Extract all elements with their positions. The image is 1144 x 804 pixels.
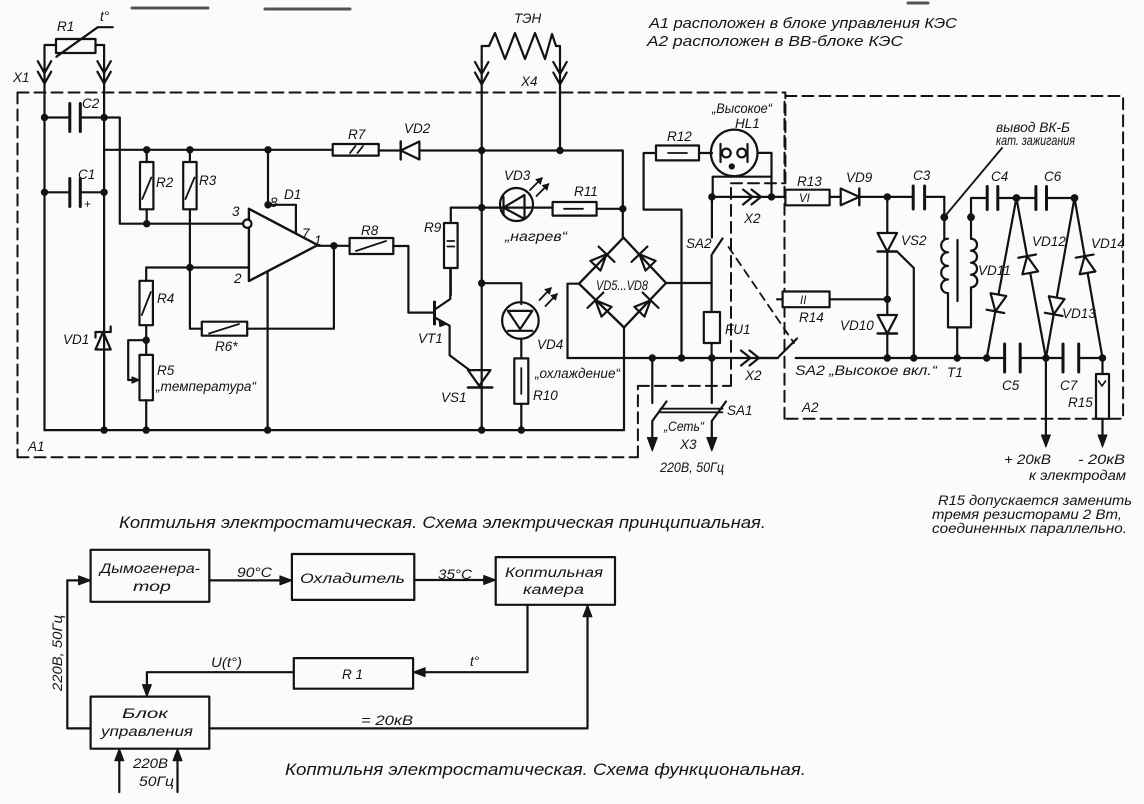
wire op-amp output — [318, 245, 350, 247]
svg-text:R 1: R 1 — [342, 667, 363, 682]
resistor R9 — [424, 208, 458, 295]
block smoking chamber — [496, 557, 615, 605]
wire X2 upper row — [712, 196, 786, 198]
svg-text:R14: R14 — [799, 310, 824, 325]
svg-text:С7: С7 — [1060, 378, 1078, 393]
svg-text:R2: R2 — [156, 175, 174, 190]
wire bridge left corner down — [568, 284, 580, 358]
resistor R14 — [777, 292, 887, 326]
svg-text:50Гц: 50Гц — [139, 774, 174, 789]
svg-text:С3: С3 — [913, 168, 931, 183]
HV output bus — [796, 357, 1103, 359]
fuse FU1 — [704, 282, 751, 358]
svg-text:управления: управления — [100, 724, 193, 739]
node C1 junctions — [42, 190, 47, 195]
zener diode VD1 — [63, 327, 111, 350]
block cooler — [292, 554, 414, 600]
capacitor C5 — [1002, 344, 1020, 393]
wire feedback — [247, 246, 334, 329]
connector X2 upper — [743, 190, 761, 205]
svg-text:R15: R15 — [1068, 395, 1093, 410]
connector X3 pins — [647, 438, 717, 452]
connector X4 pins — [475, 62, 567, 85]
block control unit — [91, 697, 210, 749]
switch SA2 pole 1 — [686, 197, 723, 254]
svg-text:VS2: VS2 — [901, 233, 927, 248]
diode VD12 — [1018, 255, 1039, 275]
resistor R12 — [656, 129, 699, 160]
svg-text:к электродам: к электродам — [1029, 468, 1126, 483]
wire R8 to VT1 base — [393, 246, 434, 313]
capacitor C4 — [987, 169, 1016, 210]
block R1 regulator — [294, 658, 413, 689]
resistor R15 — [1068, 358, 1109, 419]
resistor R6 — [190, 268, 247, 355]
svg-text:Коптильня электростатическая.: Коптильня электростатическая. Схема функ… — [285, 761, 806, 779]
svg-text:R4: R4 — [157, 291, 174, 306]
output +20kV — [1004, 358, 1051, 467]
svg-text:VD11: VD11 — [978, 263, 1011, 278]
op-amp D1 — [232, 187, 322, 286]
svg-text:SA2: SA2 — [686, 236, 712, 251]
svg-text:А1: А1 — [27, 439, 45, 454]
svg-text:- 20кВ: - 20кВ — [1078, 452, 1125, 467]
diode VD11 — [987, 293, 1008, 313]
svg-text:R12: R12 — [667, 129, 692, 144]
switch SA2 pole 2 — [761, 339, 939, 379]
svg-text:FU1: FU1 — [725, 322, 751, 337]
wire 20kV to chamber — [209, 605, 592, 729]
thyristor VS2 — [878, 197, 927, 358]
svg-text:VI: VI — [799, 193, 811, 205]
svg-text:VT1: VT1 — [418, 331, 443, 346]
dashed mechanical link SA2 — [729, 247, 795, 343]
diode VD10 — [840, 315, 897, 334]
svg-text:HL1: HL1 — [735, 116, 760, 131]
capacitor C2 — [45, 96, 105, 132]
wire U(t) to control unit — [142, 655, 293, 697]
wire pin 8 and bracket pin 7 — [268, 150, 296, 234]
wire bridge bottom corner down — [623, 328, 625, 431]
svg-text:R3: R3 — [199, 173, 217, 188]
svg-text:VD2: VD2 — [404, 121, 431, 136]
svg-text:тремя резисторами 2 Вт,: тремя резисторами 2 Вт, — [932, 507, 1122, 522]
capacitor C3 — [913, 168, 944, 209]
wire bridge right corner to SA2 — [666, 255, 712, 283]
arrows mains into control unit — [115, 749, 182, 792]
wire R12 to lamp — [699, 152, 712, 154]
scan artifact marks — [132, 3, 928, 9]
svg-text:С5: С5 — [1002, 378, 1020, 393]
wire R1 to X1 pins — [45, 45, 105, 61]
multiplier diagonal wires — [987, 198, 1103, 358]
svg-text:VD1: VD1 — [63, 332, 89, 347]
arrow 35C — [414, 567, 495, 585]
resistor R4 — [140, 281, 175, 355]
wire VD2 to bridge — [419, 151, 622, 238]
svg-text:R7: R7 — [348, 127, 366, 142]
svg-text:VD14: VD14 — [1091, 236, 1125, 251]
wire X1 left rail down — [43, 83, 45, 430]
note A1 A2 location — [646, 16, 958, 50]
svg-text:С6: С6 — [1044, 169, 1062, 184]
svg-text:II: II — [800, 295, 807, 307]
svg-text:35°С: 35°С — [438, 567, 472, 582]
svg-text:R1: R1 — [57, 19, 74, 34]
svg-text:VD5...VD8: VD5...VD8 — [596, 278, 648, 293]
svg-text:R8: R8 — [361, 223, 379, 238]
diode VD14 — [1076, 255, 1097, 275]
thermistor R1 — [56, 9, 113, 57]
svg-text:С4: С4 — [991, 169, 1008, 184]
svg-text:R13: R13 — [797, 174, 822, 189]
wire mains loop left — [50, 576, 91, 729]
svg-text:Х4: Х4 — [520, 74, 538, 89]
pointer line vyvod VK-B — [946, 148, 1003, 216]
svg-text:Коптильная: Коптильная — [505, 565, 603, 580]
wire bottom rail A1 — [45, 429, 624, 431]
svg-text:D1: D1 — [284, 187, 301, 202]
svg-text:VD12: VD12 — [1032, 234, 1066, 249]
wire lamp right down and shelf to X2 — [758, 153, 772, 197]
svg-text:220В: 220В — [132, 756, 168, 771]
svg-text:220В, 50Гц: 220В, 50Гц — [659, 460, 724, 475]
svg-text:t°: t° — [100, 9, 110, 24]
svg-text:А2 расположен в ВВ-блоке К: А2 расположен в ВВ-блоке КЭС — [646, 34, 904, 50]
wire R12 jog down — [644, 153, 682, 358]
svg-text:3: 3 — [232, 204, 240, 219]
svg-text:R5: R5 — [157, 363, 175, 378]
svg-text:R11: R11 — [574, 184, 598, 199]
svg-text:Х2: Х2 — [743, 211, 761, 226]
transformer T1 — [941, 198, 987, 380]
svg-text:Х1: Х1 — [12, 70, 30, 85]
svg-text:Дымогенера-: Дымогенера- — [98, 561, 201, 576]
diode VD9 — [830, 170, 914, 205]
svg-text:„Высокое“: „Высокое“ — [711, 101, 773, 116]
svg-text:U(t°): U(t°) — [211, 655, 242, 670]
svg-text:90°С: 90°С — [237, 565, 272, 580]
svg-text:соединенных параллельно.: соединенных параллельно. — [932, 521, 1127, 536]
transistor VT1 — [418, 268, 470, 370]
A2 dashed enclosure — [782, 96, 1124, 419]
lamp HL1 — [711, 101, 774, 176]
diode VD13 — [1045, 296, 1066, 316]
svg-text:VS1: VS1 — [441, 390, 467, 405]
svg-text:Коптильня электростатическая.: Коптильня электростатическая. Схема элек… — [119, 514, 766, 532]
output -20kV — [1078, 419, 1125, 467]
wire C3 to T1 primary — [943, 197, 945, 239]
svg-text:R15 допускается заменить: R15 допускается заменить — [938, 493, 1132, 508]
svg-text:7: 7 — [302, 226, 310, 241]
thyristor VS1 — [441, 370, 492, 405]
diode VD2 — [379, 121, 431, 160]
connector X2 lower — [741, 351, 759, 366]
svg-text:Блок: Блок — [122, 706, 169, 721]
connector X1 pins (arrows) — [38, 61, 111, 84]
note R15 — [932, 493, 1132, 536]
svg-text:Т1: Т1 — [947, 365, 963, 380]
capacitor C1 — [45, 167, 105, 211]
svg-text:+: + — [84, 199, 91, 211]
svg-text:С1: С1 — [78, 167, 95, 182]
wire X1 right line down — [103, 83, 105, 430]
resistor R2 — [140, 150, 174, 224]
svg-text:VD4: VD4 — [537, 337, 563, 352]
svg-text:тор: тор — [133, 579, 172, 594]
svg-text:SA1: SA1 — [727, 403, 753, 418]
svg-text:t°: t° — [470, 654, 480, 669]
resistor R13 — [785, 174, 829, 205]
resistor R8 — [350, 223, 394, 254]
svg-text:R9: R9 — [424, 220, 442, 235]
resistor R10 — [514, 339, 558, 431]
A1 dashed enclosure — [18, 93, 786, 458]
svg-text:камера: камера — [523, 582, 585, 597]
svg-text:= 20кВ: = 20кВ — [361, 713, 413, 728]
wire pin 2 input — [146, 268, 249, 281]
svg-text:Охладитель: Охладитель — [300, 571, 405, 586]
wire X4 left line down to rail — [481, 83, 483, 430]
svg-text:„охлаждение“: „охлаждение“ — [534, 366, 622, 381]
resistor R11 — [553, 184, 623, 216]
wire VD3 row — [451, 207, 553, 209]
svg-text:2: 2 — [233, 271, 242, 286]
svg-text:VD10: VD10 — [840, 318, 874, 333]
svg-text:Х2: Х2 — [744, 368, 762, 383]
svg-text:220В, 50Гц: 220В, 50Гц — [50, 615, 65, 692]
svg-text:8: 8 — [270, 195, 278, 210]
potentiometer R5 — [128, 340, 257, 430]
arrow 90C — [209, 565, 292, 585]
switch SA1 — [652, 358, 752, 440]
svg-text:VD9: VD9 — [846, 170, 873, 185]
svg-text:кат. зажигания: кат. зажигания — [996, 133, 1075, 148]
LED VD3 — [500, 168, 569, 244]
resistor R3 — [183, 150, 217, 268]
capacitor C6 — [1016, 169, 1074, 210]
wire op-amp V- to rail — [267, 273, 269, 431]
svg-text:VD3: VD3 — [504, 168, 531, 183]
svg-text:„Сеть“: „Сеть“ — [663, 419, 705, 434]
wire signal jog C2 to op-amp pin 3 — [104, 118, 243, 224]
svg-text:Х3: Х3 — [679, 437, 697, 452]
svg-text:„температура“: „температура“ — [155, 379, 258, 394]
wire supply bus — [104, 149, 333, 151]
svg-text:VD13: VD13 — [1062, 306, 1096, 321]
heater TEN — [482, 11, 560, 62]
svg-text:ТЭН: ТЭН — [514, 11, 541, 26]
svg-text:С2: С2 — [82, 96, 100, 111]
svg-text:А1 расположен в блоке упра: А1 расположен в блоке управления КЭС — [648, 16, 958, 32]
wire t to R1 — [413, 605, 527, 677]
svg-text:„нагрев“: „нагрев“ — [504, 229, 569, 244]
svg-text:R10: R10 — [533, 388, 558, 403]
bridge rectifier VD5...VD8 — [579, 238, 666, 328]
resistor R7 — [333, 127, 379, 156]
wire mains bus — [568, 357, 779, 359]
svg-text:R6*: R6* — [215, 339, 238, 354]
svg-text:+ 20кВ: + 20кВ — [1004, 452, 1051, 467]
block smoke generator — [91, 550, 210, 602]
svg-text:SA2 „Высокое вкл.“: SA2 „Высокое вкл.“ — [795, 363, 939, 378]
wire VD4 branch — [482, 283, 522, 304]
svg-text:А2: А2 — [801, 400, 819, 415]
capacitor C7 — [1060, 344, 1079, 393]
LED VD4 — [502, 288, 563, 352]
node C2 junctions — [42, 115, 47, 120]
wire X4 right lead — [559, 83, 561, 151]
